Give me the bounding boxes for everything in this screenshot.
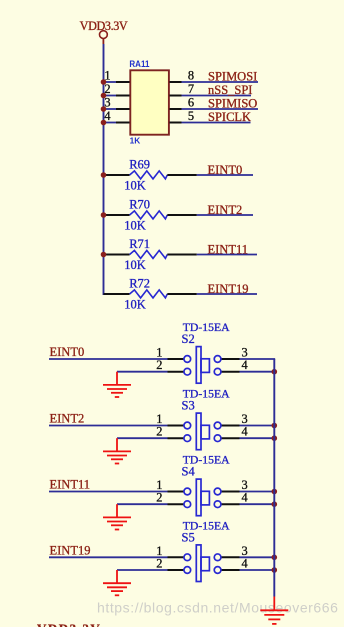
wire net EINT2: [197, 214, 253, 216]
pin 1 of S4: [168, 491, 185, 493]
pin 2 of S5: [168, 569, 185, 571]
svg-text:EINT11: EINT11: [208, 243, 249, 257]
junction right bus pin 3 S3: [272, 423, 278, 429]
svg-text:2: 2: [156, 491, 162, 505]
svg-text:1K: 1K: [130, 136, 141, 145]
pin 5 of RA11: [170, 122, 182, 124]
wire bus to RA11 pin 3: [104, 108, 117, 110]
wire switch S3 pin 4 to right bus: [240, 437, 275, 439]
power VDD3.3V: [80, 19, 128, 44]
ground symbol at switch S3: [103, 438, 131, 463]
pin 4 of S4: [221, 503, 240, 505]
wire left vertical bus: [103, 44, 105, 295]
svg-text:RA11: RA11: [129, 59, 150, 70]
junction on bus at RA11 pin 2: [101, 93, 107, 99]
svg-text:6: 6: [188, 96, 194, 110]
svg-text:R70: R70: [129, 197, 150, 211]
wire net EINT2 to switch pin 1: [49, 425, 168, 427]
svg-text:EINT19: EINT19: [50, 543, 91, 557]
wire ground to switch pin 2: [117, 437, 168, 439]
svg-text:10K: 10K: [124, 258, 146, 272]
svg-text:7: 7: [188, 82, 194, 96]
pin 4 of RA11: [116, 122, 130, 124]
wire net EINT11: [197, 254, 257, 256]
svg-text:SPIMOSI: SPIMOSI: [208, 69, 257, 83]
svg-text:EINT2: EINT2: [50, 412, 85, 426]
wire bus to RA11 pin 4: [104, 122, 117, 124]
junction on bus at RA11 pin 4: [101, 120, 107, 126]
svg-text:5: 5: [188, 109, 194, 123]
svg-text:2: 2: [156, 358, 162, 372]
wire switch S2 pin 4 to right bus: [240, 371, 275, 373]
wire ground to switch pin 2: [117, 371, 168, 373]
wire net EINT19: [197, 293, 257, 295]
wire ground to switch pin 2: [117, 569, 168, 571]
svg-text:R72: R72: [129, 276, 150, 290]
svg-text:SPICLK: SPICLK: [208, 110, 251, 124]
wire switch S5 pin 3 to right bus: [240, 556, 275, 558]
svg-text:EINT0: EINT0: [50, 345, 85, 359]
pin 2 of S2: [168, 371, 185, 373]
wire net EINT0 to switch pin 1: [49, 358, 168, 360]
svg-text:S3: S3: [182, 399, 195, 413]
resistor R72: [104, 276, 197, 311]
wire bus to RA11 pin 1: [104, 81, 117, 83]
ground symbol at switch S2: [103, 372, 131, 397]
svg-text:https://blog.csdn.net/Mouseove: https://blog.csdn.net/Mouseover666: [97, 599, 339, 615]
resistor R71: [104, 237, 197, 272]
pin 3 of S2: [221, 358, 240, 360]
pin 1 of S5: [168, 556, 185, 558]
svg-text:10K: 10K: [124, 218, 146, 232]
svg-text:2: 2: [156, 557, 162, 571]
junction right bus pin 4 S4: [272, 501, 278, 507]
switch S5 symbol: [156, 544, 247, 582]
svg-text:nSS_SPI: nSS_SPI: [208, 83, 252, 97]
junction right bus pin 3 S5: [272, 555, 278, 561]
pin 3 of S3: [221, 425, 240, 427]
wire net SPIMOSI: [182, 81, 259, 83]
svg-text:4: 4: [242, 358, 248, 372]
pin 2 of RA11: [116, 95, 130, 97]
junction right bus pin 3 S4: [272, 489, 278, 495]
pin 6 of RA11: [170, 108, 182, 110]
wire net SPIMISO: [182, 108, 259, 110]
ground symbol at switch S4: [103, 504, 131, 529]
junction right bus pin 4 S5: [272, 567, 278, 573]
wire net EINT19 to switch pin 1: [49, 556, 168, 558]
pin 7 of RA11: [170, 95, 182, 97]
svg-text:SPIMISO: SPIMISO: [208, 96, 257, 110]
svg-text:10K: 10K: [124, 178, 146, 192]
junction on bus at R69: [101, 172, 107, 178]
svg-text:S5: S5: [182, 531, 195, 545]
svg-text:10K: 10K: [124, 297, 146, 311]
pin 1 of RA11: [116, 81, 130, 83]
wire switch S2 pin 3 to right bus: [240, 358, 276, 360]
svg-text:EINT11: EINT11: [50, 478, 91, 492]
switch S3 symbol: [156, 412, 247, 450]
switch S4 symbol: [156, 478, 247, 516]
ground symbol at switch S5: [103, 570, 131, 595]
pin 1 of S2: [168, 358, 185, 360]
junction on bus at R70: [101, 212, 107, 218]
wire bus to RA11 pin 2: [104, 95, 117, 97]
junction on bus at R71: [101, 252, 107, 258]
svg-text:VDD3.3V: VDD3.3V: [37, 621, 101, 627]
svg-text:S4: S4: [182, 465, 196, 479]
svg-text:EINT2: EINT2: [208, 203, 243, 217]
pin 2 of S3: [168, 437, 185, 439]
svg-text:R71: R71: [129, 237, 150, 251]
svg-text:EINT0: EINT0: [208, 163, 243, 177]
svg-text:4: 4: [242, 557, 248, 571]
ground symbol bottom right: [260, 597, 288, 624]
junction right bus pin 4 S2: [272, 369, 278, 375]
pin 4 of S5: [221, 569, 240, 571]
svg-text:8: 8: [188, 69, 194, 83]
resistor R70: [104, 197, 197, 232]
wire net EINT0: [197, 174, 253, 176]
pin 4 of S2: [221, 371, 240, 373]
wire net SPICLK: [182, 122, 251, 124]
wire net nSS_SPI: [182, 95, 252, 97]
pin 3 of RA11: [116, 108, 130, 110]
wire switch S4 pin 3 to right bus: [240, 491, 275, 493]
svg-text:EINT19: EINT19: [208, 282, 249, 296]
svg-text:S2: S2: [182, 332, 195, 346]
pin 3 of S5: [221, 556, 240, 558]
svg-text:4: 4: [242, 425, 248, 439]
wire net EINT11 to switch pin 1: [49, 491, 168, 493]
wire switch S5 pin 4 to right bus: [240, 569, 275, 571]
junction on bus at RA11 pin 1: [101, 79, 107, 85]
pin 1 of S3: [168, 425, 185, 427]
svg-text:4: 4: [242, 491, 248, 505]
junction on bus at RA11 pin 3: [101, 106, 107, 112]
wire switch S3 pin 3 to right bus: [240, 425, 275, 427]
svg-text:R69: R69: [129, 157, 150, 171]
svg-text:2: 2: [156, 425, 162, 439]
junction right bus pin 4 S3: [272, 435, 278, 441]
resistor R69: [104, 157, 197, 192]
resistor network RA11 box: [130, 70, 169, 134]
wire ground to switch pin 2: [117, 503, 168, 505]
wire switch S4 pin 4 to right bus: [240, 503, 275, 505]
pin 2 of S4: [168, 503, 185, 505]
pin 4 of S3: [221, 437, 240, 439]
pin 3 of S4: [221, 491, 240, 493]
pin 8 of RA11: [170, 81, 182, 83]
switch S2 symbol: [156, 346, 247, 384]
wire right vertical bus: [273, 359, 275, 597]
